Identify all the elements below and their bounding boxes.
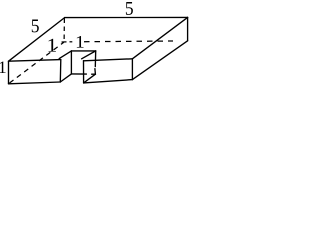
hidden bottom-left depth edge (dashed): [10, 42, 64, 83]
left front vertical: [8, 61, 10, 84]
slot left front vertical: [59, 60, 62, 82]
slot right front vertical: [83, 61, 85, 83]
slot right wall bottom slant: [84, 74, 96, 83]
bottom edge right: [84, 80, 133, 83]
label 1 (left front height): [0, 62, 6, 74]
slot back wall bottom edge: [71, 73, 86, 75]
top-right depth slant: [132, 17, 187, 58]
slot back-right vertical: [94, 51, 96, 67]
hidden bottom back edge (dashed): [70, 41, 73, 43]
front top edge left: [9, 60, 61, 62]
hidden back-left vertical (dashed): [63, 19, 65, 42]
label 1 (notch depth): [49, 39, 57, 52]
label 5 (left depth edge): [32, 20, 39, 33]
slot left wall bottom slant: [60, 74, 71, 82]
label 1 (notch width): [77, 36, 84, 48]
slot right wall rim slant: [82, 51, 96, 59]
slot left wall rim slant: [59, 51, 71, 59]
right face bottom slant: [132, 41, 187, 80]
label 5 (top edge length): [126, 2, 133, 15]
background: [0, 0, 190, 86]
right front vertical: [131, 59, 133, 80]
top back edge: [65, 16, 188, 18]
left depth slant (5): [9, 18, 65, 62]
hidden corner tick: [62, 41, 67, 43]
bottom edge left: [9, 82, 61, 84]
slot back wall top edge: [71, 50, 95, 52]
front top edge right: [84, 59, 133, 61]
back-right vertical edge: [187, 17, 189, 40]
slot back-left vertical: [70, 51, 72, 74]
